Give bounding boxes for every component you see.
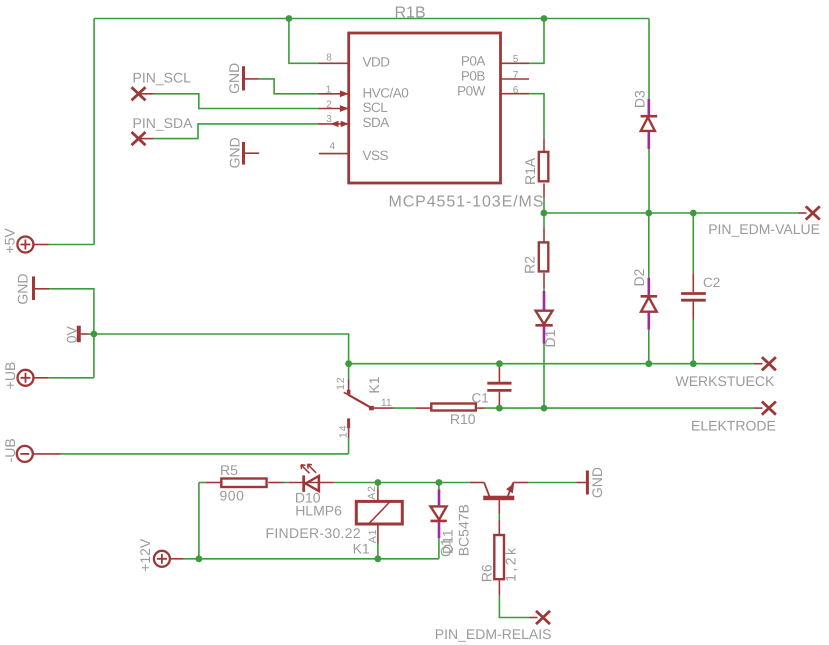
svg-text:3: 3 <box>326 114 332 125</box>
svg-text:K1: K1 <box>366 376 382 393</box>
svg-text:14: 14 <box>337 424 349 438</box>
svg-text:+UB: +UB <box>2 362 18 390</box>
svg-text:HVC/A0: HVC/A0 <box>363 85 409 100</box>
svg-text:PIN_SDA: PIN_SDA <box>133 115 194 131</box>
svg-text:1: 1 <box>326 84 332 95</box>
svg-text:R1B: R1B <box>395 4 426 21</box>
svg-text:5: 5 <box>513 54 519 65</box>
svg-text:P0W: P0W <box>457 84 486 99</box>
svg-text:Q1: Q1 <box>438 538 454 557</box>
svg-text:A1: A1 <box>367 529 379 543</box>
svg-text:7: 7 <box>513 70 519 81</box>
svg-text:1,2k: 1,2k <box>503 545 519 581</box>
svg-text:FINDER-30.22: FINDER-30.22 <box>266 525 361 541</box>
svg-text:WERKSTUECK: WERKSTUECK <box>676 373 775 389</box>
svg-text:GND: GND <box>226 63 242 94</box>
svg-text:P0A: P0A <box>461 54 486 69</box>
svg-text:A2: A2 <box>366 485 378 499</box>
svg-text:P0B: P0B <box>461 69 486 84</box>
svg-text:VDD: VDD <box>363 55 391 70</box>
svg-text:GND: GND <box>589 467 605 498</box>
svg-text:SDA: SDA <box>363 115 390 130</box>
svg-text:R5: R5 <box>220 462 238 478</box>
svg-text:+12V: +12V <box>137 538 153 572</box>
svg-text:PIN_SCL: PIN_SCL <box>133 70 192 86</box>
svg-text:R10: R10 <box>450 411 476 427</box>
svg-text:PIN_EDM-VALUE: PIN_EDM-VALUE <box>708 221 820 237</box>
svg-text:BC547B: BC547B <box>456 504 472 556</box>
svg-text:R1A: R1A <box>522 157 538 185</box>
svg-text:-UB: -UB <box>2 438 18 462</box>
svg-text:900: 900 <box>220 488 245 504</box>
svg-text:VSS: VSS <box>363 148 389 163</box>
svg-text:0V: 0V <box>64 325 80 343</box>
svg-text:8: 8 <box>326 53 332 64</box>
svg-text:11: 11 <box>381 397 392 409</box>
svg-text:D1: D1 <box>542 329 558 347</box>
svg-text:R2: R2 <box>522 256 538 274</box>
svg-text:+5V: +5V <box>2 228 18 254</box>
svg-text:GND: GND <box>15 274 31 305</box>
svg-text:SCL: SCL <box>363 100 389 115</box>
svg-text:2: 2 <box>326 100 332 111</box>
svg-text:12: 12 <box>335 376 347 390</box>
svg-text:GND: GND <box>227 137 243 168</box>
svg-text:C2: C2 <box>703 275 720 290</box>
svg-text:D3: D3 <box>632 90 648 108</box>
svg-text:4: 4 <box>330 141 336 152</box>
svg-text:PIN_EDM-RELAIS: PIN_EDM-RELAIS <box>435 626 552 642</box>
svg-text:R6: R6 <box>479 564 495 582</box>
svg-text:D2: D2 <box>631 268 647 286</box>
svg-text:C1: C1 <box>472 391 489 406</box>
svg-text:6: 6 <box>513 85 519 96</box>
svg-text:ELEKTRODE: ELEKTRODE <box>691 418 776 434</box>
svg-text:MCP4551-103E/MS: MCP4551-103E/MS <box>389 194 545 211</box>
svg-text:HLMP6: HLMP6 <box>295 503 342 519</box>
